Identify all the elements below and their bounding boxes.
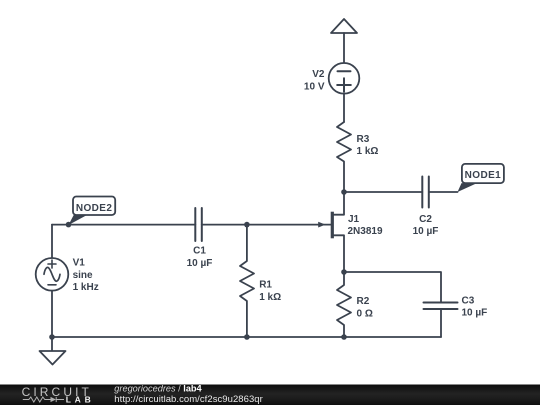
svg-text:10 µF: 10 µF <box>462 308 488 319</box>
svg-text:sine: sine <box>73 270 93 281</box>
svg-text:C2: C2 <box>419 214 432 225</box>
svg-text:gregoriocedres / lab4: gregoriocedres / lab4 <box>114 383 202 393</box>
svg-text:2N3819: 2N3819 <box>348 226 383 237</box>
svg-text:C3: C3 <box>462 295 475 306</box>
svg-text:10 V: 10 V <box>304 82 325 93</box>
svg-text:10 µF: 10 µF <box>187 258 213 269</box>
svg-text:LAB: LAB <box>66 395 95 405</box>
svg-text:0 Ω: 0 Ω <box>357 308 373 319</box>
svg-text:R1: R1 <box>259 280 272 291</box>
svg-text:J1: J1 <box>348 214 360 225</box>
svg-text:1 kΩ: 1 kΩ <box>357 146 379 157</box>
svg-text:R2: R2 <box>357 296 370 307</box>
svg-text:http://circuitlab.com/cf2sc9u2: http://circuitlab.com/cf2sc9u2863qr <box>114 394 263 405</box>
svg-text:10 µF: 10 µF <box>413 226 439 237</box>
svg-text:C1: C1 <box>193 246 206 257</box>
svg-text:V1: V1 <box>73 258 86 269</box>
svg-text:1 kHz: 1 kHz <box>73 282 99 293</box>
svg-text:R3: R3 <box>357 134 370 145</box>
svg-text:NODE2: NODE2 <box>76 203 112 214</box>
svg-text:NODE1: NODE1 <box>465 170 501 181</box>
svg-text:V2: V2 <box>312 69 325 80</box>
svg-text:1 kΩ: 1 kΩ <box>259 292 281 303</box>
